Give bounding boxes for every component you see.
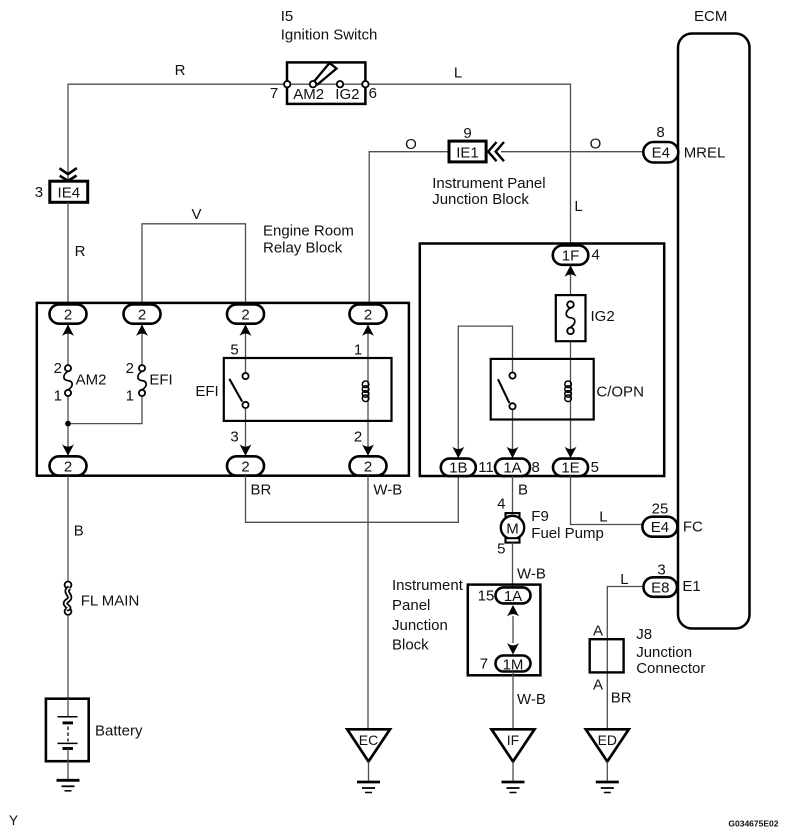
wire across ignition switch interior: [287, 83, 365, 85]
wire AM2 fuse bottom to lower connector: [67, 396, 69, 457]
svg-text:1: 1: [354, 342, 362, 359]
connector oval 1B: [441, 459, 476, 477]
svg-text:IE1: IE1: [456, 145, 479, 162]
wire BR from relay block to 1B column: [246, 476, 459, 523]
junction connector J8 box: [590, 639, 624, 672]
svg-text:L: L: [599, 509, 607, 526]
arrow down inside junction block: [507, 643, 519, 655]
svg-text:9: 9: [463, 125, 471, 142]
svg-text:4: 4: [592, 247, 600, 264]
wire L from E8 to J8: [607, 587, 643, 730]
wire O from relay block up to IE1: [369, 152, 449, 305]
battery dashed link: [67, 727, 69, 742]
svg-text:2: 2: [354, 429, 362, 446]
arrow down into bottom oval (relay pin3 col): [240, 444, 252, 456]
right junction block outline: [420, 244, 664, 477]
svg-text:Instrument: Instrument: [392, 577, 464, 594]
arrow up into EFI fuse top oval: [136, 325, 148, 337]
svg-text:1B: 1B: [449, 460, 467, 477]
wire battery to ground: [67, 761, 69, 780]
wire W-B junction block to IF ground: [512, 672, 514, 730]
svg-text:ECM: ECM: [694, 8, 727, 25]
wire L from ignition switch to 1F column: [365, 84, 570, 245]
svg-text:2: 2: [54, 360, 62, 377]
svg-text:O: O: [405, 136, 417, 153]
label Instrument Panel Junction Block (bottom): [392, 577, 464, 654]
svg-text:Connector: Connector: [636, 660, 705, 677]
svg-text:AM2: AM2: [76, 372, 107, 389]
fuse IG2 box: [556, 295, 586, 341]
terminal AM2 circle: [310, 81, 316, 87]
svg-text:O: O: [590, 136, 602, 153]
battery cell plate long (bottom): [58, 742, 78, 744]
connector oval 1A: [495, 459, 530, 477]
relay C/OPN switch contact: [498, 373, 516, 410]
svg-text:FL MAIN: FL MAIN: [81, 593, 140, 610]
svg-text:IE4: IE4: [58, 185, 81, 202]
svg-text:4: 4: [497, 496, 505, 513]
battery cell plate short thick (top): [63, 721, 74, 724]
label F9 Fuel Pump: [531, 508, 604, 542]
svg-text:AM2: AM2: [293, 86, 324, 103]
arrow up into relay pin5 top oval: [240, 325, 252, 337]
svg-text:E1: E1: [682, 578, 700, 595]
svg-text:3: 3: [230, 429, 238, 446]
wire IF to ground: [512, 762, 514, 782]
arrow up into 1F oval: [565, 265, 577, 277]
ground symbol ED: [596, 782, 619, 793]
fusible link FL MAIN: [65, 582, 72, 615]
svg-text:J8: J8: [636, 626, 652, 643]
svg-text:E4: E4: [652, 145, 670, 162]
battery internal wire top: [67, 699, 69, 717]
motor F9 fuel pump: [501, 513, 524, 543]
ignition switch SW1 box: [287, 62, 365, 104]
svg-text:1F: 1F: [562, 248, 580, 265]
svg-text:W-B: W-B: [373, 482, 402, 499]
svg-text:Relay Block: Relay Block: [263, 240, 343, 257]
svg-text:IG2: IG2: [591, 308, 615, 325]
svg-text:F9: F9: [531, 508, 549, 525]
connector E4 MREL oval: [643, 142, 678, 163]
svg-text:2: 2: [64, 307, 72, 324]
svg-text:R: R: [175, 62, 186, 79]
svg-text:Junction Block: Junction Block: [432, 191, 529, 208]
connector oval 2 (top, EFI fuse): [124, 304, 161, 323]
svg-text:V: V: [191, 206, 201, 223]
wire AM2 fuse column: [67, 324, 69, 366]
wire O from IE1 to ECM MREL: [501, 151, 643, 153]
svg-text:2: 2: [241, 458, 249, 475]
svg-text:1: 1: [54, 388, 62, 405]
svg-text:L: L: [454, 65, 462, 82]
label I5 Ignition Switch: [281, 8, 378, 44]
connector oval 1A (junction block): [496, 587, 531, 603]
svg-text:1: 1: [126, 388, 134, 405]
svg-text:M: M: [506, 520, 519, 537]
ground symbol EC: [357, 782, 380, 793]
svg-text:Panel: Panel: [392, 597, 430, 614]
svg-text:Battery: Battery: [95, 723, 143, 740]
pin 6 terminal circle: [362, 81, 368, 87]
svg-text:5: 5: [230, 342, 238, 359]
svg-text:BR: BR: [251, 482, 272, 499]
svg-text:B: B: [518, 482, 528, 499]
relay EFI coil: [362, 381, 369, 402]
svg-text:MREL: MREL: [684, 145, 726, 162]
connector oval 2 (top, relay pin1): [350, 304, 387, 323]
fuse AM2 symbol: [64, 365, 72, 396]
svg-text:7: 7: [270, 85, 278, 102]
svg-text:3: 3: [657, 562, 665, 579]
engine room relay block outline: [37, 303, 409, 476]
battery box: [46, 699, 89, 762]
svg-text:Block: Block: [392, 637, 429, 654]
svg-text:EFI: EFI: [149, 372, 172, 389]
svg-text:C/OPN: C/OPN: [596, 384, 644, 401]
connector oval 2 (top, relay pin5): [227, 304, 264, 323]
svg-text:2: 2: [64, 458, 72, 475]
connector IE4 box: [50, 181, 88, 202]
svg-text:W-B: W-B: [517, 566, 546, 583]
arrow down into bottom oval (AM2 col): [62, 444, 74, 456]
battery cell plate long (top): [58, 716, 78, 718]
connector IE1 box: [449, 141, 486, 162]
svg-text:I5: I5: [281, 8, 294, 25]
ground triangle EC: [347, 729, 390, 761]
svg-text:1E: 1E: [561, 460, 579, 477]
svg-text:3: 3: [35, 184, 43, 201]
ground symbol below battery: [57, 780, 80, 791]
svg-text:25: 25: [652, 501, 669, 518]
wire 1F to IG2 fuse: [570, 265, 572, 296]
terminal IG2 circle: [337, 81, 343, 87]
svg-text:E8: E8: [651, 579, 669, 596]
svg-text:Junction: Junction: [392, 617, 448, 634]
connector oval 1F: [553, 246, 589, 265]
wire R from IE4 down to relay block: [67, 202, 69, 304]
connector oval 1E: [553, 459, 588, 477]
arrow up into AM2 top oval: [62, 325, 74, 337]
wire W-B fuel pump to junction block: [512, 543, 514, 588]
svg-text:6: 6: [369, 85, 377, 102]
arrow down into bottom oval (relay pin2 col): [362, 444, 374, 456]
svg-text:15: 15: [478, 588, 495, 605]
svg-text:FC: FC: [683, 519, 703, 536]
ground triangle ED: [586, 729, 629, 761]
svg-text:A: A: [593, 623, 603, 640]
svg-text:2: 2: [241, 307, 249, 324]
svg-text:Junction: Junction: [636, 644, 692, 661]
svg-text:EC: EC: [359, 732, 378, 748]
connector E4 FC oval: [642, 517, 677, 537]
svg-text:E4: E4: [651, 519, 669, 536]
wire EFI relay switch to bottom connector: [245, 408, 247, 456]
wire from FL MAIN to battery: [67, 615, 69, 699]
svg-text:W-B: W-B: [517, 691, 546, 708]
wire B from 1A to fuel pump: [512, 476, 514, 513]
battery internal wire bottom: [67, 749, 69, 762]
wire V loop from EFI fuse top to EFI relay pin5: [142, 224, 246, 305]
svg-text:EFI: EFI: [195, 383, 218, 400]
svg-text:L: L: [574, 198, 582, 215]
connector oval 2 (bottom, W-B col): [350, 456, 387, 475]
svg-text:7: 7: [480, 656, 488, 673]
instrument panel junction block box: [468, 585, 541, 676]
wire IG2 fuse to 1E oval through coil: [570, 341, 572, 458]
connector IE1 chevrons: [488, 142, 504, 161]
wire EFI relay switch column: [245, 324, 247, 373]
svg-text:IG2: IG2: [335, 86, 359, 103]
ignition switch lever: [314, 63, 337, 85]
connector oval 2 (top, AM2): [50, 304, 87, 323]
svg-text:8: 8: [656, 124, 664, 141]
ECM block U1: [678, 34, 750, 629]
svg-text:2: 2: [364, 458, 372, 475]
svg-text:G034675E02: G034675E02: [728, 819, 778, 829]
wire ED to ground: [606, 762, 608, 782]
arrow down into 1E oval: [565, 447, 577, 459]
label Instrument Panel Junction Block (top): [432, 175, 545, 208]
svg-text:Y: Y: [9, 813, 18, 828]
relay C/OPN coil: [565, 381, 572, 402]
svg-text:BR: BR: [611, 690, 632, 707]
wire B from relay block to FL MAIN: [67, 476, 69, 582]
arrow down into 1A oval: [507, 447, 519, 459]
svg-text:5: 5: [591, 459, 599, 476]
svg-text:IF: IF: [507, 732, 519, 748]
label Engine Room Relay Block: [263, 223, 354, 257]
svg-text:11: 11: [478, 459, 494, 476]
ground symbol IF: [502, 782, 525, 793]
wire EFI relay coil column: [367, 324, 369, 457]
svg-text:A: A: [593, 676, 603, 693]
wire R horizontal from ignition switch to left column: [68, 84, 287, 181]
fuse IG2 symbol: [566, 301, 575, 334]
connector oval 2 (bottom, battery col): [50, 456, 87, 475]
ground triangle IF: [492, 729, 535, 761]
svg-text:L: L: [620, 571, 628, 588]
junction dot node: [65, 421, 71, 427]
svg-text:Engine Room: Engine Room: [263, 223, 354, 240]
wire C/OPN switch to 1A oval: [512, 409, 514, 458]
svg-text:8: 8: [532, 459, 540, 476]
pin 7 terminal circle: [284, 81, 290, 87]
arrow up into relay pin1 top oval: [362, 325, 374, 337]
svg-text:Instrument Panel: Instrument Panel: [432, 175, 545, 192]
connector oval 1M (junction block): [496, 656, 531, 672]
label J8 Junction Connector: [636, 626, 705, 677]
svg-text:2: 2: [126, 360, 134, 377]
svg-text:Fuel Pump: Fuel Pump: [531, 525, 604, 542]
connector E8 oval: [644, 577, 678, 597]
arrow down into 1B oval: [452, 447, 464, 459]
arrow up inside junction block: [507, 605, 519, 617]
svg-text:1A: 1A: [503, 460, 521, 477]
wire L from 1E to ECM FC: [571, 476, 643, 524]
svg-text:5: 5: [497, 541, 505, 558]
svg-text:2: 2: [364, 307, 372, 324]
svg-text:Ignition Switch: Ignition Switch: [281, 27, 378, 44]
svg-text:1A: 1A: [504, 588, 522, 605]
wire between arrows: [512, 616, 514, 643]
svg-text:R: R: [75, 243, 86, 260]
svg-text:2: 2: [138, 307, 146, 324]
relay EFI box: [224, 358, 392, 421]
svg-text:1M: 1M: [503, 656, 524, 673]
wire 1B branch horizontal: [458, 326, 512, 459]
connector IE4 chevrons: [60, 168, 77, 181]
svg-text:B: B: [74, 523, 84, 540]
relay C/OPN box: [491, 359, 594, 420]
wire EC to ground: [368, 762, 370, 782]
wire EFI fuse top column: [141, 324, 143, 366]
fuse EFI symbol: [138, 365, 146, 396]
connector oval 2 (bottom, BR col): [227, 456, 264, 475]
wire junction AM2/EFI horizontal: [68, 396, 142, 424]
relay EFI switch contact: [229, 373, 248, 408]
svg-text:ED: ED: [598, 732, 617, 748]
wire W-B from relay block to EC ground: [367, 476, 369, 730]
battery cell plate short thick (bottom): [63, 747, 74, 750]
